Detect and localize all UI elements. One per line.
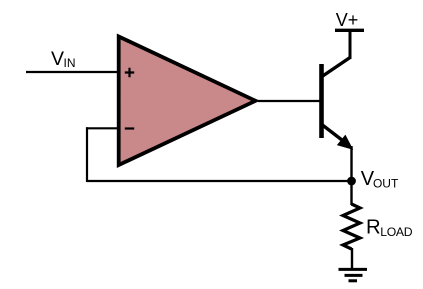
resistor R_LOAD zigzag [343,204,360,249]
svg-text:V+: V+ [336,10,359,30]
svg-text:VIN: VIN [51,48,76,70]
wire R_LOAD to ground [351,248,353,270]
supply rail bar V+ [335,29,364,32]
transistor Q1 collector diagonal [321,58,351,78]
wire feedback bottom horizontal segment to V_OUT node [87,180,352,182]
ground symbol [339,269,368,280]
transistor Q1 emitter diagonal [321,124,347,144]
op-amp U1 [119,37,256,166]
wire collector to V+ supply [349,30,352,59]
wire op-amp output to Q1 base [258,100,322,102]
svg-text:RLOAD: RLOAD [366,217,413,240]
op-amp minus (inverting) pin marker [125,127,134,129]
transistor Q1 emitter arrowhead [338,136,353,150]
wire inverting input stub [87,127,121,129]
wire input V_IN to op-amp non-inverting input [26,71,120,73]
wire emitter to V_OUT node [350,146,352,182]
node V_OUT junction dot [347,177,356,186]
op-amp plus (non-inverting) pin marker [125,68,134,77]
wire V_OUT node to R_LOAD [350,181,352,205]
wire feedback vertical segment [86,127,88,182]
svg-text:VOUT: VOUT [361,168,399,190]
transistor Q1 base bar [319,64,324,138]
